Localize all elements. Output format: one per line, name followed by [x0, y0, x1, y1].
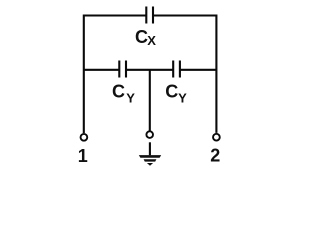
- node 2 terminal circle: [213, 134, 220, 141]
- label terminal 2: [210, 145, 220, 165]
- svg-text:C: C: [112, 82, 125, 102]
- node center terminal circle: [146, 131, 153, 138]
- wire middle rail segment 2: [126, 69, 173, 71]
- svg-text:Y: Y: [126, 91, 135, 106]
- capacitor CY left: [119, 61, 126, 78]
- svg-text:C: C: [135, 27, 148, 47]
- svg-text:2: 2: [210, 145, 220, 165]
- capacitor CX: [146, 7, 153, 24]
- wire right vertical (node 2): [215, 15, 217, 133]
- label CX: [135, 27, 156, 48]
- svg-text:C: C: [165, 82, 178, 102]
- wire top rail left segment (node 1 to CX): [84, 14, 146, 16]
- wire middle rail segment 1: [84, 69, 119, 71]
- svg-text:X: X: [147, 33, 156, 48]
- svg-text:Y: Y: [178, 91, 187, 106]
- svg-text:1: 1: [78, 146, 88, 166]
- wire ground stem: [149, 142, 151, 155]
- node 1 terminal circle: [81, 134, 88, 141]
- label terminal 1: [78, 146, 88, 166]
- wire center vertical to ground terminal: [149, 70, 151, 131]
- label CY left: [112, 82, 135, 106]
- capacitor CY right: [173, 61, 180, 78]
- wire left vertical (node 1): [83, 15, 85, 134]
- label CY right: [165, 82, 187, 106]
- wire middle rail segment 3: [180, 69, 217, 71]
- ground: [139, 155, 161, 166]
- wire top rail right segment (CX to node 2): [153, 14, 216, 16]
